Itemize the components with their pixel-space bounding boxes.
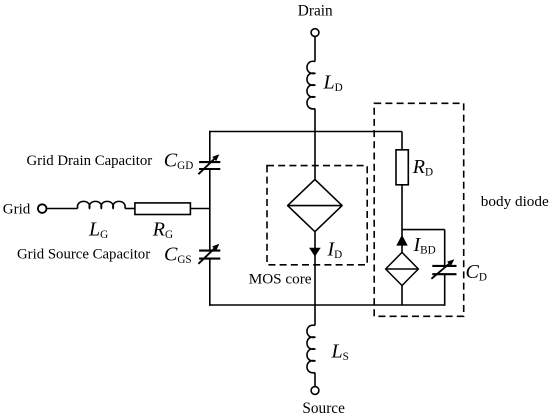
- svg-text:CD: CD: [466, 261, 487, 284]
- node Drain terminal: [311, 29, 319, 37]
- wire node to CD branch: [402, 229, 445, 231]
- wire source internal node (bottom edge): [209, 304, 445, 306]
- inductor LG: [77, 201, 125, 208]
- svg-text:LS: LS: [331, 341, 349, 364]
- inductor LD: [307, 61, 315, 109]
- svg-text:LG: LG: [88, 218, 108, 241]
- wire CD to source node: [444, 274, 446, 306]
- inductor LS: [307, 325, 315, 373]
- svg-text:ID: ID: [327, 239, 343, 262]
- wire LS to source terminal: [314, 373, 316, 387]
- node Grid terminal: [38, 204, 47, 213]
- svg-text:body diode: body diode: [481, 193, 549, 210]
- wire drain node to RD: [401, 132, 403, 150]
- svg-text:Source: Source: [302, 400, 345, 417]
- dependent current source ID (diamond): [288, 179, 343, 231]
- capacitor CGS: [199, 250, 220, 252]
- svg-text:IBD: IBD: [413, 234, 436, 257]
- svg-text:LD: LD: [323, 72, 343, 95]
- resistor RD: [396, 150, 408, 185]
- svg-text:Drain: Drain: [298, 3, 333, 20]
- wire grid terminal to LG: [46, 208, 78, 210]
- svg-text:Grid: Grid: [3, 201, 31, 217]
- capacitor CD: [432, 265, 456, 267]
- wire gate node middle segment: [209, 169, 211, 251]
- wire RG to gate node: [190, 208, 210, 210]
- node Source terminal: [311, 387, 319, 395]
- wire drain internal node (top edge): [210, 131, 402, 133]
- arrow ID direction: [309, 248, 321, 257]
- wire drain terminal to LD: [314, 37, 316, 62]
- dependent current source IBD (diamond): [386, 252, 419, 285]
- svg-text:RG: RG: [152, 218, 173, 241]
- MOS core dashed box: [267, 166, 367, 265]
- wire RD to BD source, with IBD arrow: [401, 185, 403, 253]
- capacitor CGD: [199, 161, 220, 163]
- wire BD source to source node: [401, 286, 403, 306]
- svg-text:Grid Drain Capacitor: Grid Drain Capacitor: [27, 153, 153, 169]
- svg-text:MOS core: MOS core: [249, 271, 312, 288]
- wire gate node upper segment: [209, 131, 211, 162]
- svg-text:Grid Source Capacitor: Grid Source Capacitor: [17, 246, 150, 262]
- wire LG to RG: [125, 208, 135, 210]
- wire CD branch down: [444, 230, 446, 266]
- wire ID source to source node, with current arrow: [314, 232, 316, 305]
- svg-text:CGS: CGS: [164, 243, 192, 266]
- wire drain node to ID source: [314, 132, 316, 180]
- wire source node to LS: [314, 305, 316, 325]
- wire gate node lower segment: [209, 259, 211, 306]
- wire LD to drain node: [314, 109, 316, 132]
- svg-text:RD: RD: [412, 156, 433, 179]
- body diode dashed box: [374, 103, 464, 316]
- resistor RG: [135, 203, 191, 215]
- arrow IBD direction: [396, 235, 407, 246]
- svg-text:CGD: CGD: [164, 150, 194, 173]
